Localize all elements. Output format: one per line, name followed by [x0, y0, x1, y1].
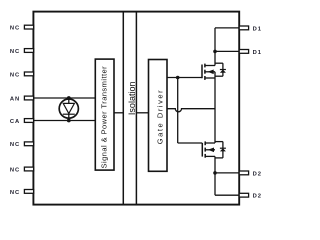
pin 3 NC	[10, 72, 34, 78]
pin D2 third drain2	[239, 171, 262, 177]
wire Q2 gate lead	[178, 142, 203, 144]
svg-text:Signal & Power Transmitter: Signal & Power Transmitter	[100, 66, 109, 169]
IC outer package body	[33, 12, 239, 205]
pin 2 NC	[10, 49, 34, 55]
svg-text:NC: NC	[10, 49, 20, 55]
pin 4 AN anode	[10, 96, 34, 102]
wire isolation to gate driver	[136, 112, 148, 114]
svg-text:CA: CA	[10, 119, 20, 125]
svg-text:D2: D2	[253, 171, 262, 177]
pin 7 NC	[10, 167, 34, 173]
wire source rail to D2 pin4	[215, 194, 239, 196]
svg-text:NC: NC	[10, 26, 20, 32]
wire gate driver to Q1 gate	[167, 77, 202, 79]
wire transmitter to isolation	[114, 112, 123, 114]
svg-text:D2: D2	[253, 194, 262, 200]
wire gate branch down to Q2	[177, 78, 179, 144]
svg-text:Isolation: Isolation	[127, 82, 137, 116]
svg-text:D1: D1	[253, 26, 262, 32]
transistor Q1 n-channel mosfet	[202, 64, 215, 80]
wire drain rail to D1 pin1	[215, 27, 239, 29]
pin 1 NC	[10, 25, 34, 31]
wire Q1 source to Q2 drain common node	[214, 72, 216, 143]
svg-text:NC: NC	[10, 142, 20, 148]
wire Q2 source down	[214, 156, 216, 195]
pin 6 NC	[10, 142, 34, 148]
junction D2 tap	[213, 171, 217, 175]
svg-text:NC: NC	[10, 72, 20, 78]
pin D2 bottom drain2	[239, 193, 262, 199]
pin 8 NC	[10, 190, 34, 196]
wire tap to D2 pin3	[215, 172, 239, 174]
svg-text:AN: AN	[10, 96, 20, 102]
svg-text:NC: NC	[10, 190, 20, 196]
transistor Q2 n-channel mosfet	[202, 141, 215, 157]
wire AN pin to transmitter	[34, 97, 96, 99]
junction CA-diode	[67, 119, 71, 123]
wire tap to D1 pin2	[215, 50, 239, 52]
wire Q1 drain up	[214, 28, 216, 66]
svg-text:Gate Driver: Gate Driver	[156, 89, 165, 144]
isolation barrier line left	[122, 12, 124, 205]
pin D1 top drain1	[239, 26, 262, 32]
pin 5 CA cathode	[10, 119, 34, 125]
signal and power transmitter block U1	[95, 59, 114, 170]
body diode of Q1	[215, 63, 226, 76]
svg-text:NC: NC	[10, 167, 20, 173]
junction D1 tap	[213, 50, 217, 54]
wire CA pin to transmitter	[34, 120, 96, 122]
body diode of Q2	[215, 142, 226, 158]
gate driver block U2	[149, 60, 168, 172]
junction gate split	[176, 76, 180, 80]
isolation barrier line right	[135, 12, 137, 205]
input LED diode D3 anode AN cathode CA	[59, 98, 78, 121]
svg-text:D1: D1	[253, 50, 262, 56]
wire gate driver to common source node with crossover hop	[167, 109, 215, 112]
junction AN-diode	[67, 96, 71, 100]
pin D1 second drain1	[239, 50, 262, 56]
